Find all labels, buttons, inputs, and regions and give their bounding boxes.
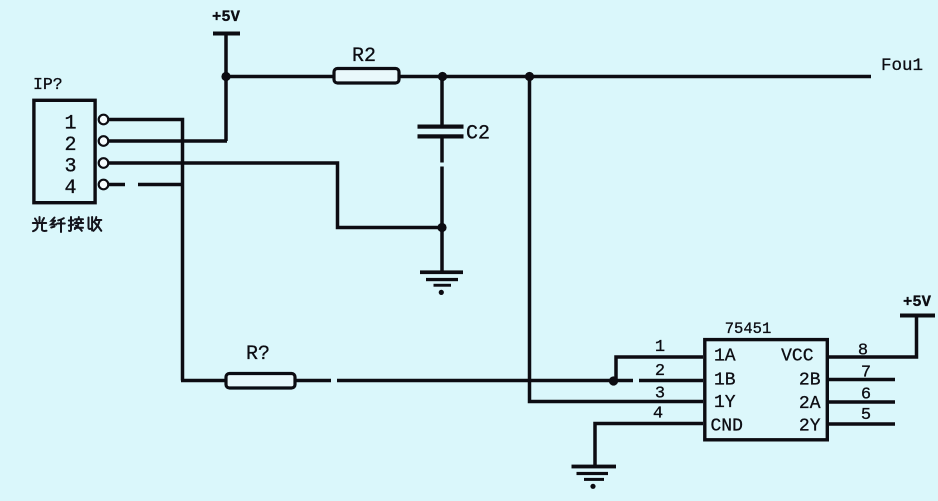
svg-text:1: 1 bbox=[655, 338, 665, 357]
svg-text:1A: 1A bbox=[714, 347, 736, 367]
svg-text:8: 8 bbox=[858, 342, 868, 361]
svg-text:75451: 75451 bbox=[725, 320, 772, 338]
svg-text:5: 5 bbox=[861, 406, 871, 425]
svg-text:R?: R? bbox=[246, 343, 270, 366]
svg-text:7: 7 bbox=[861, 364, 871, 383]
svg-text:3: 3 bbox=[655, 385, 665, 404]
svg-text:4: 4 bbox=[64, 177, 76, 200]
svg-text:2: 2 bbox=[64, 134, 76, 157]
svg-text:C2: C2 bbox=[466, 123, 490, 146]
svg-text:2: 2 bbox=[655, 362, 665, 381]
svg-text:1: 1 bbox=[64, 113, 76, 136]
svg-text:6: 6 bbox=[861, 386, 871, 405]
svg-text:CND: CND bbox=[711, 417, 743, 437]
svg-text:VCC: VCC bbox=[781, 347, 814, 367]
svg-text:2Y: 2Y bbox=[799, 417, 821, 437]
svg-text:Fou1: Fou1 bbox=[881, 56, 923, 76]
svg-text:2B: 2B bbox=[799, 371, 821, 391]
svg-text:+5V: +5V bbox=[903, 293, 932, 311]
svg-text:2A: 2A bbox=[799, 394, 821, 414]
svg-text:+5V: +5V bbox=[212, 8, 241, 26]
svg-text:1B: 1B bbox=[714, 371, 736, 391]
svg-text:3: 3 bbox=[64, 156, 76, 179]
svg-text:IP?: IP? bbox=[33, 75, 63, 94]
svg-text:1Y: 1Y bbox=[714, 393, 736, 413]
svg-text:4: 4 bbox=[653, 405, 663, 424]
svg-text:R2: R2 bbox=[352, 45, 376, 68]
